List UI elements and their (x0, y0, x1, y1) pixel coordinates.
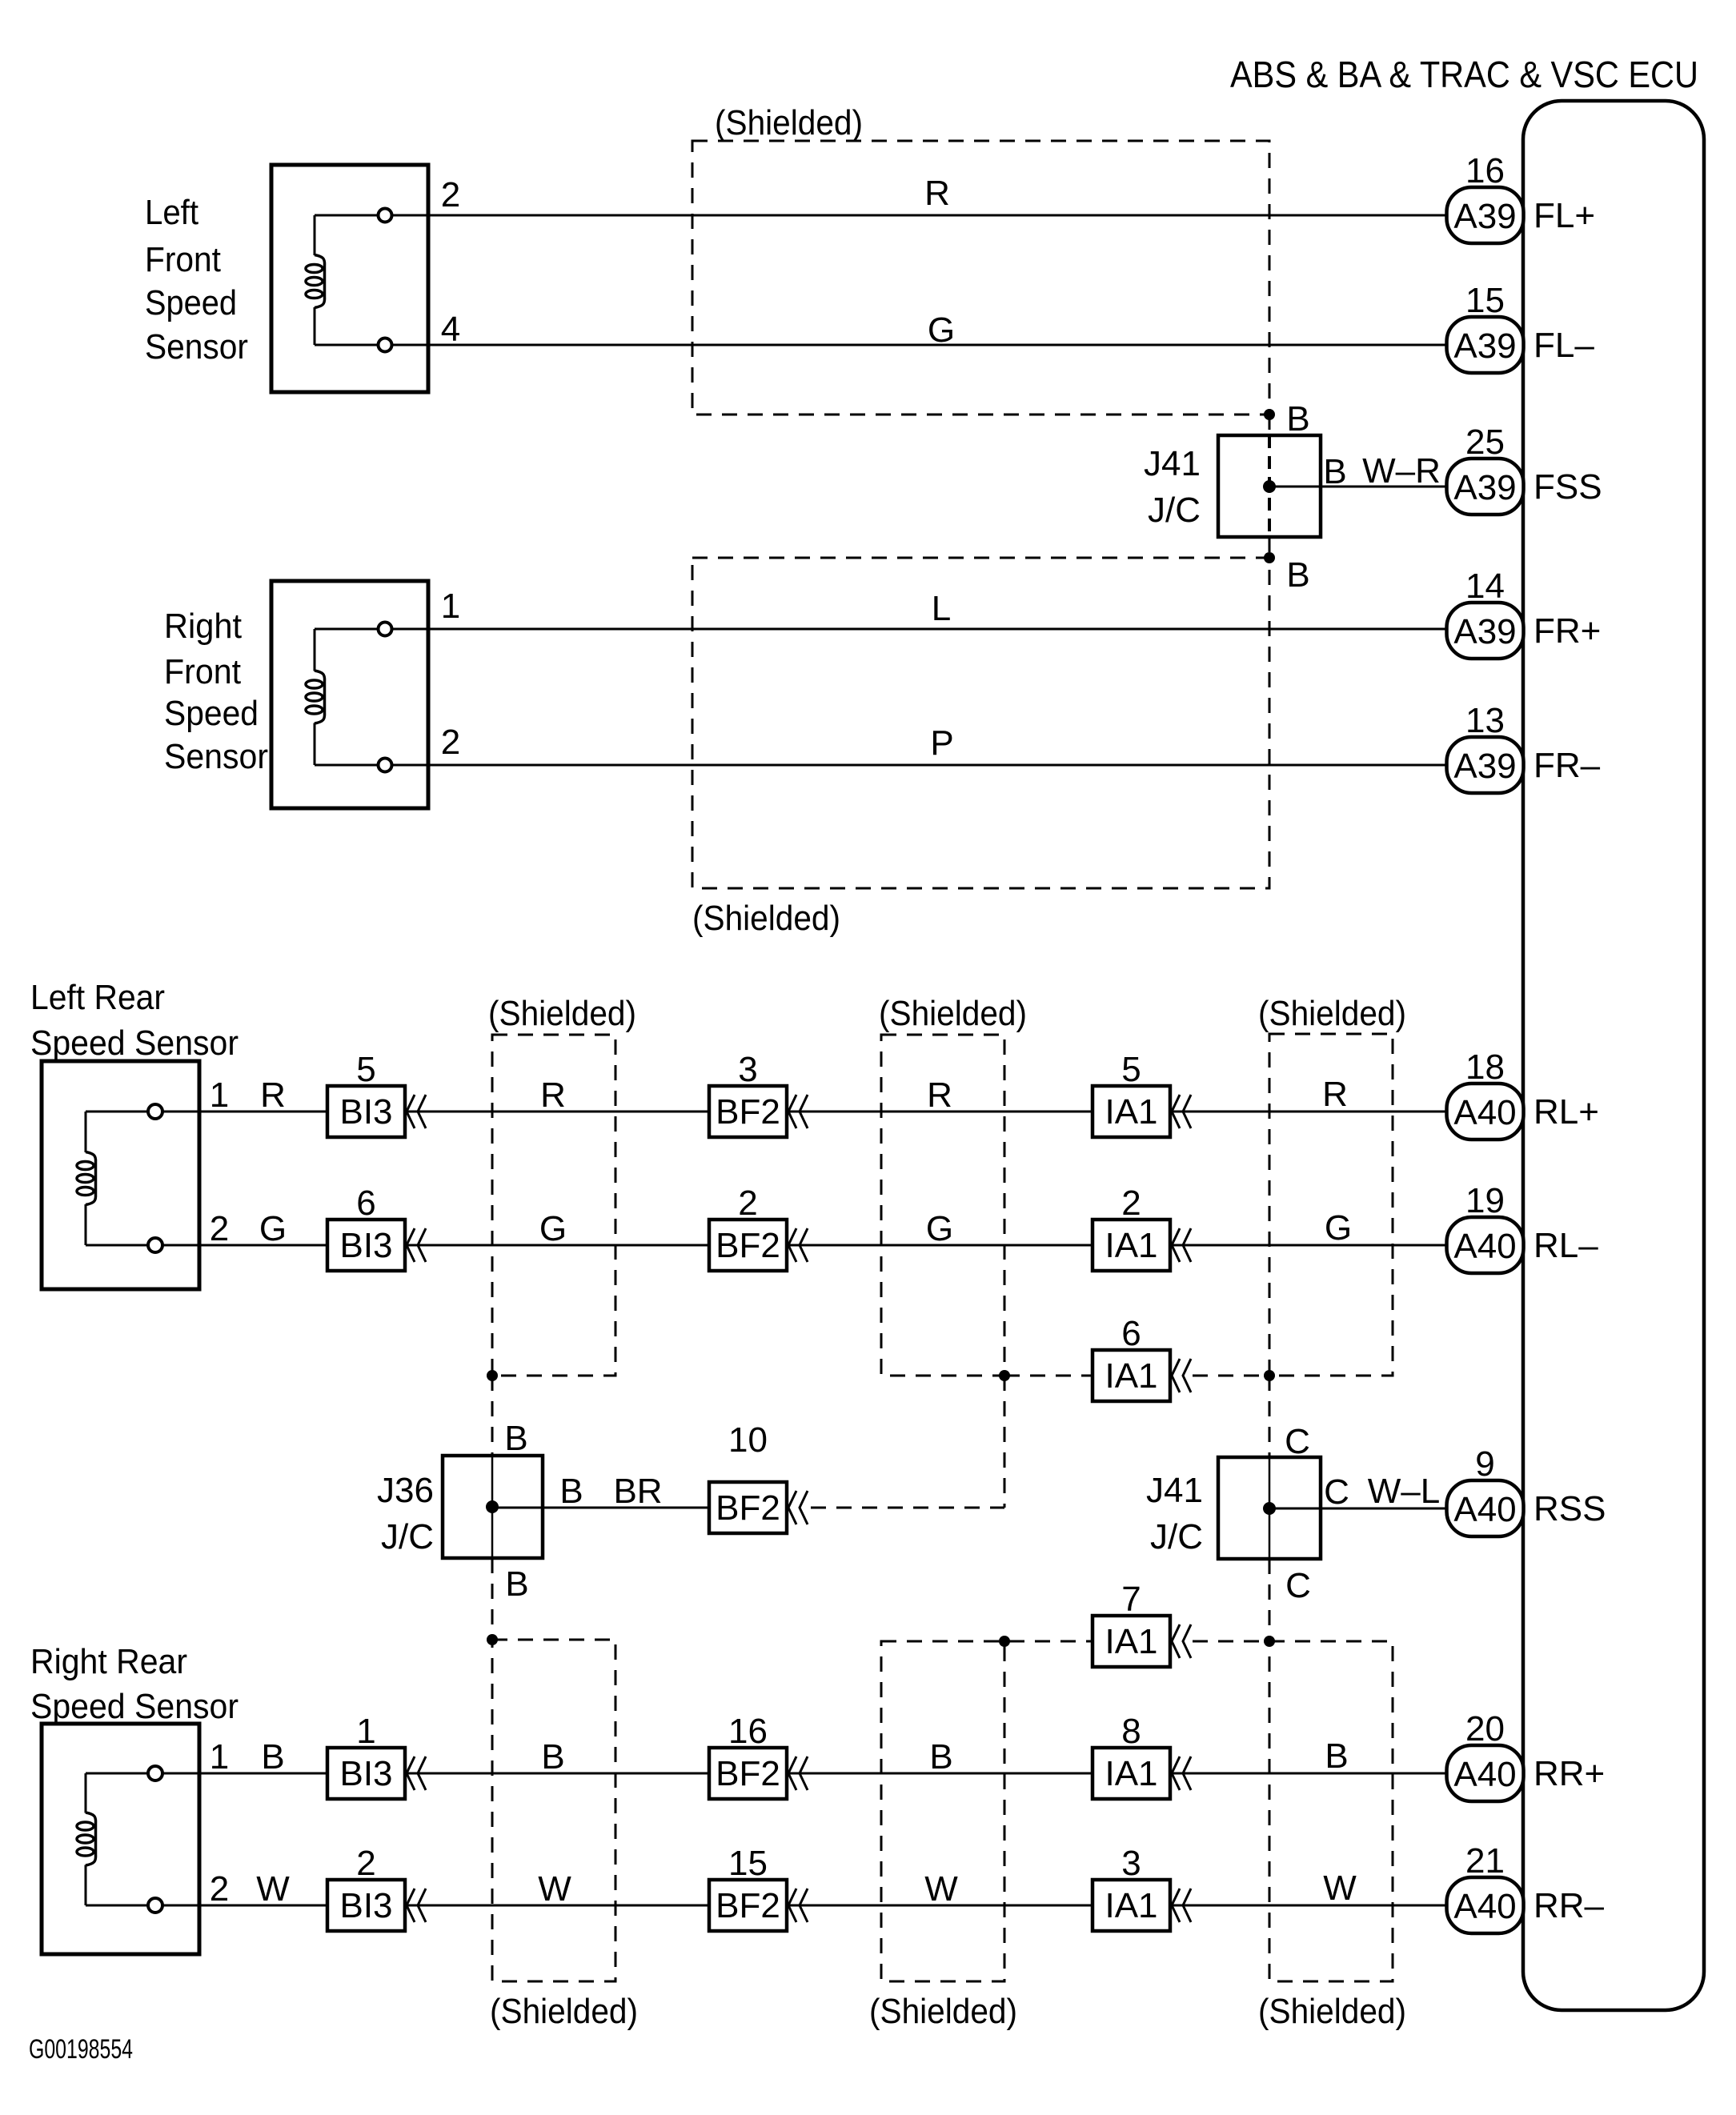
svg-text:P: P (930, 723, 953, 763)
svg-text:Speed: Speed (145, 283, 237, 322)
svg-text:J41: J41 (1146, 1471, 1203, 1510)
svg-text:W: W (924, 1869, 958, 1909)
svg-text:J36: J36 (377, 1471, 434, 1510)
svg-text:4: 4 (441, 310, 460, 349)
svg-text:J41: J41 (1144, 444, 1201, 483)
svg-text:(Shielded): (Shielded) (490, 1992, 638, 2031)
svg-text:G: G (539, 1209, 567, 1248)
svg-text:B: B (505, 1564, 528, 1604)
svg-text:2: 2 (441, 723, 460, 762)
svg-text:10: 10 (728, 1420, 768, 1460)
svg-text:G: G (1325, 1208, 1352, 1248)
svg-text:BF2: BF2 (716, 1886, 780, 1925)
svg-text:BF2: BF2 (716, 1226, 780, 1265)
svg-text:1: 1 (441, 587, 460, 626)
svg-text:W: W (256, 1869, 290, 1909)
svg-text:A39: A39 (1453, 747, 1516, 786)
svg-text:RR+: RR+ (1534, 1754, 1605, 1793)
svg-text:(Shielded): (Shielded) (692, 899, 840, 938)
svg-text:21: 21 (1465, 1841, 1505, 1881)
svg-text:8: 8 (1121, 1712, 1141, 1751)
svg-text:G: G (926, 1209, 953, 1248)
svg-text:3: 3 (738, 1050, 757, 1089)
svg-text:19: 19 (1465, 1181, 1505, 1220)
svg-text:25: 25 (1465, 423, 1505, 462)
svg-text:IA1: IA1 (1105, 1622, 1157, 1661)
svg-text:J/C: J/C (1150, 1517, 1203, 1556)
svg-text:IA1: IA1 (1105, 1886, 1157, 1925)
svg-text:A40: A40 (1453, 1887, 1516, 1926)
svg-text:BI3: BI3 (339, 1886, 392, 1925)
svg-text:R: R (540, 1076, 566, 1115)
svg-text:(Shielded): (Shielded) (879, 994, 1027, 1033)
svg-text:FR–: FR– (1534, 746, 1601, 785)
svg-text:FL+: FL+ (1534, 196, 1595, 235)
svg-text:9: 9 (1475, 1444, 1494, 1484)
svg-text:C: C (1285, 1566, 1311, 1605)
svg-text:B: B (541, 1737, 564, 1777)
svg-text:2: 2 (1121, 1184, 1141, 1223)
svg-text:A39: A39 (1453, 326, 1516, 366)
svg-text:IA1: IA1 (1105, 1754, 1157, 1793)
svg-text:IA1: IA1 (1105, 1356, 1157, 1396)
svg-text:5: 5 (356, 1050, 375, 1089)
svg-text:FL–: FL– (1534, 326, 1594, 365)
svg-text:Speed Sensor: Speed Sensor (30, 1687, 239, 1726)
svg-text:BI3: BI3 (339, 1754, 392, 1793)
svg-text:B: B (1286, 399, 1309, 439)
svg-text:B: B (929, 1737, 952, 1777)
svg-text:FSS: FSS (1534, 467, 1602, 507)
svg-text:15: 15 (728, 1844, 768, 1883)
svg-text:(Shielded): (Shielded) (715, 103, 863, 142)
svg-text:BR: BR (613, 1472, 662, 1511)
svg-text:2: 2 (210, 1869, 229, 1909)
svg-text:A40: A40 (1453, 1227, 1516, 1266)
svg-text:2: 2 (356, 1844, 375, 1883)
svg-text:G00198554: G00198554 (29, 2034, 133, 2065)
svg-text:W: W (538, 1869, 571, 1909)
svg-text:1: 1 (356, 1712, 375, 1751)
svg-text:B: B (504, 1419, 527, 1458)
svg-text:1: 1 (210, 1076, 229, 1115)
svg-text:BI3: BI3 (339, 1092, 392, 1132)
svg-text:L: L (932, 589, 951, 628)
svg-text:Front: Front (145, 240, 221, 279)
svg-text:Speed Sensor: Speed Sensor (30, 1023, 239, 1063)
svg-text:G: G (928, 310, 955, 350)
svg-text:A40: A40 (1453, 1755, 1516, 1794)
svg-text:2: 2 (210, 1209, 229, 1248)
svg-text:(Shielded): (Shielded) (488, 994, 636, 1033)
svg-text:BF2: BF2 (716, 1092, 780, 1132)
svg-text:BI3: BI3 (339, 1226, 392, 1265)
svg-text:B: B (559, 1472, 583, 1511)
svg-text:C: C (1285, 1422, 1310, 1461)
svg-text:J/C: J/C (1148, 491, 1201, 530)
svg-text:C: C (1324, 1472, 1349, 1512)
svg-text:Sensor: Sensor (145, 327, 248, 367)
svg-text:G: G (259, 1209, 287, 1248)
svg-text:6: 6 (356, 1184, 375, 1223)
svg-text:R: R (927, 1076, 952, 1115)
svg-text:15: 15 (1465, 281, 1505, 320)
svg-text:B: B (261, 1737, 284, 1777)
svg-text:Left Rear: Left Rear (30, 978, 165, 1017)
svg-text:(Shielded): (Shielded) (1258, 1992, 1406, 2031)
svg-text:W: W (1323, 1869, 1357, 1908)
svg-text:R: R (260, 1076, 286, 1115)
svg-text:Sensor: Sensor (164, 737, 268, 776)
svg-text:6: 6 (1121, 1314, 1141, 1353)
svg-text:B: B (1323, 452, 1346, 491)
svg-text:18: 18 (1465, 1047, 1505, 1087)
svg-text:IA1: IA1 (1105, 1226, 1157, 1265)
svg-text:A40: A40 (1453, 1490, 1516, 1529)
svg-text:(Shielded): (Shielded) (1258, 994, 1406, 1033)
svg-text:Right Rear: Right Rear (30, 1642, 187, 1681)
svg-text:RSS: RSS (1534, 1489, 1606, 1528)
svg-text:Left: Left (145, 193, 198, 232)
svg-text:A39: A39 (1453, 612, 1516, 651)
svg-text:FR+: FR+ (1534, 611, 1601, 651)
svg-text:BF2: BF2 (716, 1488, 780, 1528)
svg-text:IA1: IA1 (1105, 1092, 1157, 1132)
svg-text:2: 2 (738, 1184, 757, 1223)
svg-text:16: 16 (728, 1712, 768, 1751)
svg-text:ABS & BA & TRAC & VSC ECU: ABS & BA & TRAC & VSC ECU (1230, 54, 1698, 95)
svg-text:R: R (924, 174, 950, 213)
svg-text:13: 13 (1465, 701, 1505, 740)
svg-text:Speed: Speed (164, 694, 259, 733)
svg-text:W–R: W–R (1362, 451, 1441, 491)
svg-text:20: 20 (1465, 1709, 1505, 1748)
svg-text:B: B (1325, 1736, 1348, 1776)
svg-text:W–L: W–L (1368, 1472, 1440, 1511)
svg-text:3: 3 (1121, 1844, 1141, 1883)
svg-text:RL+: RL+ (1534, 1092, 1599, 1132)
svg-text:J/C: J/C (381, 1517, 434, 1556)
svg-text:BF2: BF2 (716, 1754, 780, 1793)
svg-text:(Shielded): (Shielded) (869, 1992, 1017, 2031)
svg-text:2: 2 (441, 175, 460, 214)
svg-text:Right: Right (164, 607, 242, 646)
svg-text:RR–: RR– (1534, 1886, 1605, 1925)
svg-text:R: R (1322, 1075, 1348, 1114)
svg-text:A39: A39 (1453, 197, 1516, 236)
svg-text:14: 14 (1465, 567, 1505, 606)
svg-text:16: 16 (1465, 151, 1505, 190)
svg-text:A40: A40 (1453, 1093, 1516, 1132)
svg-text:A39: A39 (1453, 468, 1516, 507)
svg-text:7: 7 (1121, 1580, 1141, 1619)
svg-text:RL–: RL– (1534, 1226, 1598, 1265)
svg-text:5: 5 (1121, 1050, 1141, 1089)
svg-text:Front: Front (164, 652, 241, 691)
svg-text:1: 1 (210, 1737, 229, 1777)
svg-text:B: B (1286, 555, 1309, 595)
